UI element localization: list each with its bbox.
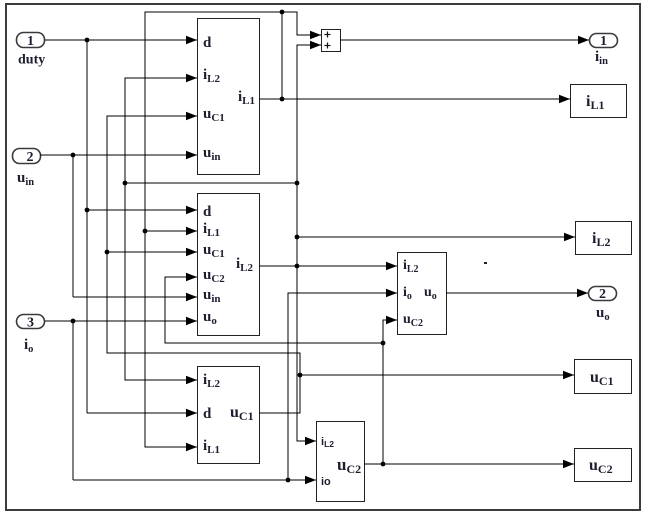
wire uin vertical branch <box>72 155 74 297</box>
inport 3 io <box>17 315 45 356</box>
subsystem U2 diL2/dt <box>198 194 260 336</box>
svg-text:1: 1 <box>600 34 607 49</box>
wire io to U2.uo <box>45 317 197 325</box>
svg-text:d: d <box>203 204 212 220</box>
node iL2 main <box>295 264 300 269</box>
subsystem U5 uo <box>398 253 447 335</box>
wire uC2 riser to U5.uC2 <box>383 316 397 464</box>
subsystem U1 diL1/dt <box>198 19 260 175</box>
svg-text:2: 2 <box>27 150 34 165</box>
wire iL1 to U2.iL1 <box>145 227 197 235</box>
outport 1 iin <box>590 34 618 68</box>
node uin branch <box>71 153 76 158</box>
node iL1 riser <box>280 97 285 102</box>
node iL2 display tap <box>295 235 300 240</box>
wire uC1 out loop <box>107 116 300 413</box>
wire duty to U2.d <box>87 206 197 214</box>
wire iL2 to display <box>297 233 575 241</box>
node duty branch <box>85 38 90 43</box>
svg-text:d: d <box>203 35 212 51</box>
wire io vertical branch <box>72 321 74 480</box>
display uC2 <box>575 449 632 482</box>
node io riser <box>286 478 291 483</box>
wire io bottom run to U4.io <box>73 476 316 484</box>
display iL2 <box>576 222 632 255</box>
wire uC1 to display <box>300 371 574 379</box>
inport 2 uin <box>13 149 41 189</box>
stray mark <box>484 262 487 264</box>
node uC1 display tap <box>298 373 303 378</box>
display iL1 <box>571 85 627 118</box>
node uC1 to U2 <box>105 250 110 255</box>
svg-text:3: 3 <box>27 316 34 331</box>
wire iL2 out to U5.iL2 <box>259 262 397 270</box>
arrow iL1 to sum <box>310 31 321 39</box>
node iL2 left riser <box>123 181 128 186</box>
wire iL1 riser <box>281 12 283 99</box>
wire uin to U1.uin <box>40 151 197 159</box>
wire iL2 down to U4.iL2 <box>297 266 316 445</box>
subsystem U4 duC2/dt <box>317 422 365 502</box>
wire iL2 left run <box>125 182 297 184</box>
svg-text:d: d <box>203 406 212 422</box>
wire iL1 top run <box>145 12 321 231</box>
node uC2 left tap <box>381 341 386 346</box>
display uC1 <box>575 360 632 394</box>
wire iL1 to U3.iL1 <box>145 231 197 451</box>
svg-text:2: 2 <box>599 287 606 302</box>
wire duty vertical branch <box>86 40 88 413</box>
node uC2 riser <box>381 462 386 467</box>
node iL1 top <box>280 10 285 15</box>
node iL2 at 183 <box>295 181 300 186</box>
subsystem U3 duC1/dt <box>198 367 260 464</box>
wire iL2 to U1.iL2 <box>125 74 197 183</box>
wire iL1 out to display <box>259 95 570 103</box>
wire uin to U2.uin <box>73 293 197 301</box>
wire duty to U3.d <box>87 409 197 417</box>
node duty to U2.d <box>85 208 90 213</box>
wire io riser to U5.io <box>288 289 397 480</box>
svg-text:duty: duty <box>18 53 45 68</box>
inport 1 duty <box>17 33 46 68</box>
wire uo out to outport 2 <box>446 289 588 297</box>
svg-text:1: 1 <box>27 34 34 49</box>
wire iL2 riser to sum <box>297 41 321 266</box>
node iL1 to U2.iL1 <box>143 229 148 234</box>
wire iL2 to U3.iL2 <box>125 183 197 384</box>
wire duty to U1.d <box>45 36 197 44</box>
wire uC2 to U2.uC2 <box>165 273 383 343</box>
svg-text:io: io <box>321 476 331 488</box>
wire uC1 to U2.uC1 <box>107 248 197 256</box>
wire uC2 out to display <box>364 460 574 468</box>
wire sum out to outport 1 <box>340 36 589 44</box>
arrow uC1 to U1.uC1 <box>186 112 197 120</box>
node io branch <box>71 319 76 324</box>
sum block S1 <box>322 30 341 52</box>
outport 2 uo <box>589 287 617 324</box>
